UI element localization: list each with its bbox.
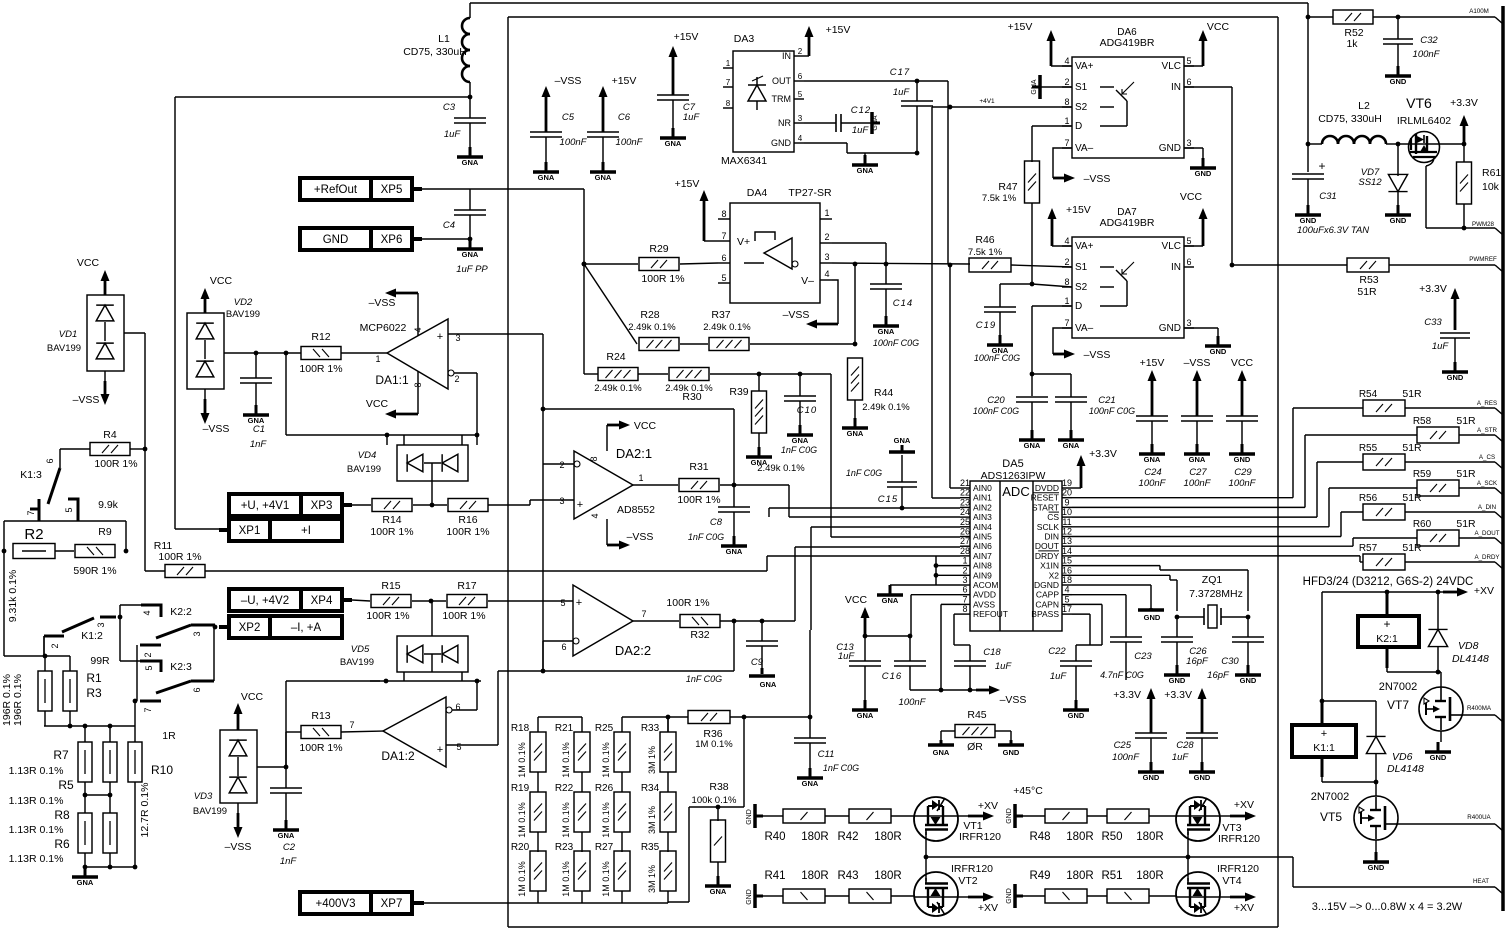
svg-text:1uF: 1uF <box>838 651 856 662</box>
capacitor C1 <box>240 353 272 450</box>
power VCC for C29 <box>1231 357 1254 416</box>
svg-text:C9: C9 <box>751 657 764 668</box>
svg-text:14: 14 <box>1062 546 1072 556</box>
svg-text:A_DRDY: A_DRDY <box>1474 554 1499 561</box>
op-amp DA1:1 MCP6022 <box>360 319 461 389</box>
capacitor C23 <box>1100 637 1152 680</box>
switch K1:3 <box>20 458 60 521</box>
resistor R3 <box>63 671 102 711</box>
switch K1:3 pin5 stub <box>64 499 119 521</box>
net R400UA <box>1397 814 1503 831</box>
svg-text:XP2: XP2 <box>239 622 261 634</box>
wire C17 bottom <box>916 107 918 153</box>
wire K2:1 to VD8 <box>1387 671 1438 673</box>
capacitor C17 <box>890 67 933 107</box>
svg-text:C31: C31 <box>1319 191 1336 202</box>
diode VD7 SS12 <box>1358 144 1411 225</box>
switch K1:2 <box>44 617 116 656</box>
svg-text:9.9k: 9.9k <box>98 499 119 511</box>
wire R31 right <box>720 485 960 517</box>
wire AVSS net <box>910 604 976 690</box>
power -VSS for C27 <box>1184 357 1211 416</box>
diode VD1 BAV199 <box>47 295 124 371</box>
svg-text:VLC: VLC <box>1162 241 1181 252</box>
svg-text:C5: C5 <box>562 112 575 123</box>
resistor R25 <box>595 723 630 792</box>
svg-text:1uF: 1uF <box>893 87 911 98</box>
svg-text:GNA: GNA <box>878 327 895 336</box>
power +XV for VT4 <box>1220 893 1256 915</box>
svg-text:5: 5 <box>64 507 74 512</box>
svg-text:8: 8 <box>721 209 726 219</box>
resistor R26 <box>595 783 630 852</box>
svg-text:R16: R16 <box>458 514 477 526</box>
svg-text:C11: C11 <box>818 749 835 760</box>
svg-text:3: 3 <box>1186 318 1191 328</box>
svg-text:100nF C0G: 100nF C0G <box>973 406 1019 416</box>
wire DA4 out to R46 <box>832 263 970 264</box>
svg-text:R21: R21 <box>555 723 574 734</box>
node K2:3 common <box>133 699 138 704</box>
capacitor C2 <box>270 767 302 867</box>
svg-text:TP27-SR: TP27-SR <box>788 187 832 199</box>
svg-text:C15: C15 <box>878 494 898 505</box>
svg-text:R12: R12 <box>311 331 330 343</box>
node bot b <box>108 865 113 870</box>
svg-text:1nF C0G: 1nF C0G <box>846 468 882 478</box>
wire R33 top stub <box>667 717 669 732</box>
power VCC for DA1:1 <box>366 371 418 419</box>
svg-text:6: 6 <box>561 642 566 652</box>
capacitor C31 polarized <box>1292 144 1369 236</box>
capacitor C5 <box>530 112 588 182</box>
svg-text:R20: R20 <box>511 842 530 853</box>
resistor R24 <box>594 351 642 394</box>
resistor R17 <box>442 580 487 622</box>
power +15V for DA7 <box>1048 204 1091 246</box>
op-amp DA4 TP27-SR <box>718 187 832 303</box>
svg-text:GNA: GNA <box>872 115 879 131</box>
svg-text:VCC: VCC <box>1207 21 1230 33</box>
node AIN0 riser <box>948 263 953 268</box>
analog switch DA6 ADG419BR <box>1062 27 1194 158</box>
svg-text:+3.3V: +3.3V <box>1450 97 1478 109</box>
wire DVDD to +3.3V <box>1072 487 1081 489</box>
svg-text:100nF: 100nF <box>899 697 927 708</box>
resistor R5 column <box>58 742 117 792</box>
net A_DOUT <box>1459 530 1503 545</box>
wire DA2:2 feedback loop <box>498 621 734 671</box>
svg-text:28: 28 <box>960 546 970 556</box>
label 1R <box>162 730 176 742</box>
svg-text:R19: R19 <box>511 783 530 794</box>
svg-text:R46: R46 <box>975 234 994 246</box>
svg-text:3: 3 <box>559 496 564 506</box>
wire VT7 source <box>1440 731 1442 742</box>
svg-text:1: 1 <box>824 208 829 218</box>
wire VD4 center tap <box>431 481 433 505</box>
svg-text:51R: 51R <box>1402 492 1422 504</box>
svg-text:51R: 51R <box>1402 442 1422 454</box>
svg-text:VCC: VCC <box>77 257 100 269</box>
svg-text:51R: 51R <box>1456 415 1476 427</box>
connector XP2 -I +A <box>219 616 342 638</box>
relay coil K2:1 <box>1358 592 1419 672</box>
svg-text:100R 1%: 100R 1% <box>442 610 485 622</box>
svg-text:GND: GND <box>1195 169 1212 178</box>
svg-text:R28: R28 <box>640 309 659 321</box>
svg-text:180R: 180R <box>801 870 829 882</box>
power +3.3V for DVDD <box>1077 448 1117 488</box>
ground GNA for DA3 <box>852 153 878 175</box>
svg-text:GND: GND <box>1240 676 1257 685</box>
svg-text:8: 8 <box>589 456 599 461</box>
wire AIN2 row <box>769 507 960 509</box>
svg-text:1uF PP: 1uF PP <box>456 264 488 275</box>
node R4 right <box>143 447 148 452</box>
svg-text:51R: 51R <box>1402 388 1422 400</box>
svg-text:IRFR120: IRFR120 <box>951 863 993 875</box>
svg-text:R13: R13 <box>311 710 330 722</box>
node C1 top <box>254 351 259 356</box>
resistor R2 <box>13 526 55 559</box>
label 99R <box>90 655 110 667</box>
wire R40-R42 <box>825 815 849 817</box>
resistor R10 <box>128 742 173 837</box>
svg-text:VA+: VA+ <box>1075 61 1094 72</box>
svg-text:NR: NR <box>778 118 791 128</box>
svg-text:1.13R 0.1%: 1.13R 0.1% <box>9 853 64 865</box>
svg-text:1uF: 1uF <box>444 129 462 140</box>
svg-text:R60: R60 <box>1413 519 1432 530</box>
svg-text:R38: R38 <box>709 781 728 793</box>
svg-text:–VSS: –VSS <box>369 297 396 309</box>
svg-text:K2:3: K2:3 <box>170 661 192 673</box>
svg-text:–I, +A: –I, +A <box>291 622 322 634</box>
wire C21 branch <box>1032 374 1071 397</box>
svg-text:S2: S2 <box>1075 282 1088 293</box>
resistor R51 <box>1101 870 1163 903</box>
svg-text:VD6: VD6 <box>1392 751 1413 763</box>
wire AIN2 jog <box>768 508 770 517</box>
svg-text:IRLML6402: IRLML6402 <box>1397 115 1451 127</box>
capacitor C16 <box>882 661 927 708</box>
svg-text:2: 2 <box>50 643 60 648</box>
svg-text:1uF: 1uF <box>1432 341 1450 352</box>
svg-text:XP7: XP7 <box>381 898 403 910</box>
resistor R47 <box>982 161 1040 204</box>
svg-text:GND: GND <box>1159 323 1181 334</box>
wire X2 to crystal <box>1072 575 1177 611</box>
svg-text:GND: GND <box>1447 373 1464 382</box>
wire R15-R17 <box>412 600 446 602</box>
svg-text:ADC: ADC <box>1002 484 1029 499</box>
node C32 top <box>1396 15 1401 20</box>
label power note <box>1312 901 1463 913</box>
svg-text:3M 1%: 3M 1% <box>647 865 657 893</box>
svg-text:1uF: 1uF <box>995 661 1013 672</box>
svg-text:+15V: +15V <box>612 75 637 87</box>
svg-text:3: 3 <box>962 575 967 585</box>
node bank b <box>83 724 88 729</box>
svg-text:100nF: 100nF <box>560 137 588 148</box>
svg-text:GND: GND <box>746 889 753 905</box>
power +15V for C7 <box>669 31 699 95</box>
svg-text:BAV199: BAV199 <box>340 657 374 668</box>
wire R29 net <box>584 263 718 264</box>
svg-text:GND: GND <box>1006 888 1013 904</box>
svg-text:AD8552: AD8552 <box>617 504 655 516</box>
svg-text:–VSS: –VSS <box>1084 173 1111 185</box>
capacitor C4 <box>443 210 488 275</box>
voltage reference DA3 MAX6341 <box>721 33 804 167</box>
svg-text:ADS1263IPW: ADS1263IPW <box>981 470 1046 482</box>
svg-text:2.49k 0.1%: 2.49k 0.1% <box>757 463 805 474</box>
svg-text:GNA: GNA <box>538 173 555 182</box>
wire CAPP to C23 <box>1072 595 1126 637</box>
capacitor C30 <box>1207 617 1264 685</box>
svg-text:GNA: GNA <box>710 887 727 896</box>
svg-text:C2: C2 <box>283 842 296 853</box>
wire fb top <box>543 409 734 485</box>
wire R41 left <box>775 895 783 897</box>
wire R14-R16 <box>413 504 447 506</box>
svg-text:AIN3: AIN3 <box>973 512 992 522</box>
power VCC for DA6 <box>1184 21 1230 66</box>
node K1:1 top <box>1320 699 1325 704</box>
diode VD4 BAV199 <box>347 445 468 481</box>
node mid a <box>83 793 88 798</box>
svg-text:7: 7 <box>726 78 731 87</box>
svg-text:5: 5 <box>1186 56 1191 66</box>
node VD5 right <box>475 679 480 684</box>
svg-text:51R: 51R <box>1456 518 1476 530</box>
wire R37 to R44 <box>750 343 855 345</box>
svg-text:1uF: 1uF <box>1050 671 1068 682</box>
node DA7 IN <box>1230 263 1235 268</box>
svg-text:A100M: A100M <box>1469 8 1489 15</box>
svg-text:C27: C27 <box>1189 467 1207 478</box>
node R39 top <box>757 372 762 377</box>
svg-text:1M 0.1%: 1M 0.1% <box>561 802 571 838</box>
node mid b <box>108 793 113 798</box>
node bot a <box>83 865 88 870</box>
svg-text:C1: C1 <box>253 424 265 435</box>
transistor VT2 IRFR120 <box>914 863 993 916</box>
resistor R14 <box>370 499 413 539</box>
wire DOUT to R60 <box>1072 538 1417 546</box>
svg-text:OUT: OUT <box>772 76 792 86</box>
svg-text:2: 2 <box>962 565 967 575</box>
svg-text:+: + <box>437 744 443 756</box>
node bank a <box>68 724 73 729</box>
svg-text:R39: R39 <box>729 386 748 398</box>
capacitor C22 <box>1048 646 1092 720</box>
svg-text:2: 2 <box>1064 77 1069 87</box>
resistor R54 <box>1359 388 1422 416</box>
node AVSS a <box>939 688 944 693</box>
node bank c <box>108 724 113 729</box>
wire BPASS stub <box>1072 614 1090 645</box>
svg-text:R400MA: R400MA <box>1467 705 1492 712</box>
node C2 top <box>284 765 289 770</box>
node ZQ1 left <box>1175 615 1180 620</box>
power +15V for DA3 IN pin2 <box>804 24 850 56</box>
svg-text:R57: R57 <box>1359 543 1378 554</box>
svg-text:ACOM: ACOM <box>973 580 999 590</box>
svg-text:XP6: XP6 <box>381 234 403 246</box>
capacitor C9 <box>686 621 778 689</box>
power +XV for VT1 <box>958 800 998 821</box>
svg-text:+45°C: +45°C <box>1013 785 1043 797</box>
svg-text:+15V: +15V <box>826 24 851 36</box>
node R61 bottom <box>1462 226 1467 231</box>
net HEAT <box>1473 878 1503 894</box>
svg-text:VCC: VCC <box>634 420 657 432</box>
svg-text:AIN7: AIN7 <box>973 551 992 561</box>
svg-text:10k: 10k <box>1482 181 1500 193</box>
svg-text:51R: 51R <box>1456 468 1476 480</box>
ground GND rotated left row2 <box>746 884 775 908</box>
svg-text:GND: GND <box>323 234 349 246</box>
wire RefOut to R29 net <box>470 189 584 374</box>
wire DA3 GND pin4 down <box>804 143 917 153</box>
relay coil K1:1 <box>1292 592 1376 782</box>
svg-text:CAPP: CAPP <box>1036 590 1059 600</box>
power +3.3V for C25 <box>1113 688 1155 733</box>
svg-text:R15: R15 <box>381 580 400 592</box>
power +3.3V for C28 <box>1164 688 1206 733</box>
power -VSS for DA2:1 <box>607 519 653 550</box>
svg-text:ADG419BR: ADG419BR <box>1100 37 1155 49</box>
svg-text:S1: S1 <box>1075 262 1088 273</box>
wire DA2:2 pin6 feedback <box>543 640 573 642</box>
resistor R21 <box>555 723 590 792</box>
svg-text:–VSS: –VSS <box>783 309 810 321</box>
transistor VT1 IRFR120 <box>914 797 1001 843</box>
svg-text:R2: R2 <box>24 526 43 543</box>
svg-text:1.13R 0.1%: 1.13R 0.1% <box>9 765 64 777</box>
svg-text:K1:2: K1:2 <box>81 630 103 642</box>
svg-text:HFD3/24 (D3212, G6S-2) 24VDC: HFD3/24 (D3212, G6S-2) 24VDC <box>1303 576 1474 588</box>
wire DIN to R56 <box>1072 512 1363 537</box>
svg-text:180R: 180R <box>801 831 829 843</box>
svg-text:180R: 180R <box>1136 831 1164 843</box>
wire VD5 bottom rail <box>370 672 481 681</box>
svg-text:CD75, 330uH: CD75, 330uH <box>403 46 467 58</box>
wire R2 loop <box>4 521 126 551</box>
power +15V for C24 <box>1140 357 1165 416</box>
svg-text:4: 4 <box>824 269 829 279</box>
wire VT5 drain <box>1375 782 1377 796</box>
svg-text:100nF: 100nF <box>616 137 644 148</box>
svg-text:+XV: +XV <box>1234 902 1254 914</box>
wire DA1:2 pin6 <box>452 681 477 710</box>
svg-text:GNA: GNA <box>1189 455 1206 464</box>
svg-text:+15V: +15V <box>1008 21 1033 33</box>
svg-text:GNA: GNA <box>792 436 809 445</box>
resistor R60 <box>1413 518 1476 546</box>
svg-text:7: 7 <box>1064 318 1069 328</box>
resistor R42 <box>837 809 901 843</box>
wire diagonal RefOut to R28 <box>584 264 637 344</box>
svg-text:+: + <box>1318 159 1325 173</box>
svg-text:5: 5 <box>798 90 803 99</box>
wire DA7 GND <box>1184 328 1218 336</box>
svg-text:8: 8 <box>1064 277 1069 287</box>
svg-text:11: 11 <box>1062 517 1071 527</box>
svg-text:R5: R5 <box>58 778 74 792</box>
node ZQ1 right <box>1246 615 1251 620</box>
ground GNA for bank <box>72 867 98 887</box>
frame main board outline <box>508 17 1278 927</box>
svg-text:–U, +4V2: –U, +4V2 <box>241 595 289 607</box>
wire R1 R3 tops <box>44 636 70 671</box>
power +XV for VT2 <box>958 893 998 915</box>
wire R41-R43 <box>825 895 849 897</box>
capacitor C29 <box>1226 416 1258 489</box>
svg-text:TRM: TRM <box>772 94 792 104</box>
svg-text:SCLK: SCLK <box>1037 522 1060 532</box>
svg-text:6: 6 <box>962 585 967 595</box>
node C10 top <box>798 372 803 377</box>
svg-text:2N7002: 2N7002 <box>1311 791 1350 803</box>
wire R36 to R38 <box>668 717 744 902</box>
wire R52 right rail <box>1373 16 1495 18</box>
svg-text:VD4: VD4 <box>358 450 376 461</box>
svg-text:100R 1%: 100R 1% <box>299 363 342 375</box>
ground GNA for C12 <box>872 112 880 134</box>
svg-text:1: 1 <box>375 354 380 364</box>
resistor R27 <box>595 842 630 897</box>
svg-text:C21: C21 <box>1098 395 1115 406</box>
svg-text:6: 6 <box>192 687 202 692</box>
wire PWMREF <box>1232 264 1495 266</box>
svg-text:R22: R22 <box>555 783 574 794</box>
svg-text:DA1:2: DA1:2 <box>381 749 415 763</box>
svg-text:+XV: +XV <box>1474 585 1494 597</box>
svg-text:24: 24 <box>960 507 970 517</box>
wire R51-VT4 <box>1149 895 1176 897</box>
svg-text:IRFR120: IRFR120 <box>1217 863 1259 875</box>
svg-text:R47: R47 <box>998 181 1017 193</box>
connector XP5 +RefOut <box>300 178 422 200</box>
svg-text:100nF C0G: 100nF C0G <box>974 353 1020 363</box>
wire DA3 NR to C12 <box>804 122 836 124</box>
svg-text:8: 8 <box>726 99 731 108</box>
capacitor C15 body <box>846 436 917 508</box>
resistor R32 <box>666 597 720 641</box>
svg-text:MCP6022: MCP6022 <box>360 322 407 334</box>
node RefOut/R29 <box>582 262 587 267</box>
svg-text:27: 27 <box>960 536 970 546</box>
svg-text:1: 1 <box>1064 296 1069 306</box>
capacitor C27 <box>1181 416 1213 489</box>
svg-text:590R 1%: 590R 1% <box>73 565 116 577</box>
wire DA6 GND <box>1184 148 1203 158</box>
svg-text:+RefOut: +RefOut <box>314 184 358 196</box>
resistor R57 <box>1359 542 1422 570</box>
wire R43-VT2 <box>891 895 914 897</box>
svg-text:+3.3V: +3.3V <box>1089 448 1117 460</box>
svg-text:R44: R44 <box>874 387 893 399</box>
svg-text:99R: 99R <box>90 655 110 667</box>
svg-text:1nF: 1nF <box>280 856 298 867</box>
wire REFOUT to C18 <box>954 614 970 661</box>
svg-text:7.5k 1%: 7.5k 1% <box>968 247 1003 258</box>
svg-text:IN: IN <box>1171 262 1181 273</box>
svg-text:–VSS: –VSS <box>225 841 252 853</box>
